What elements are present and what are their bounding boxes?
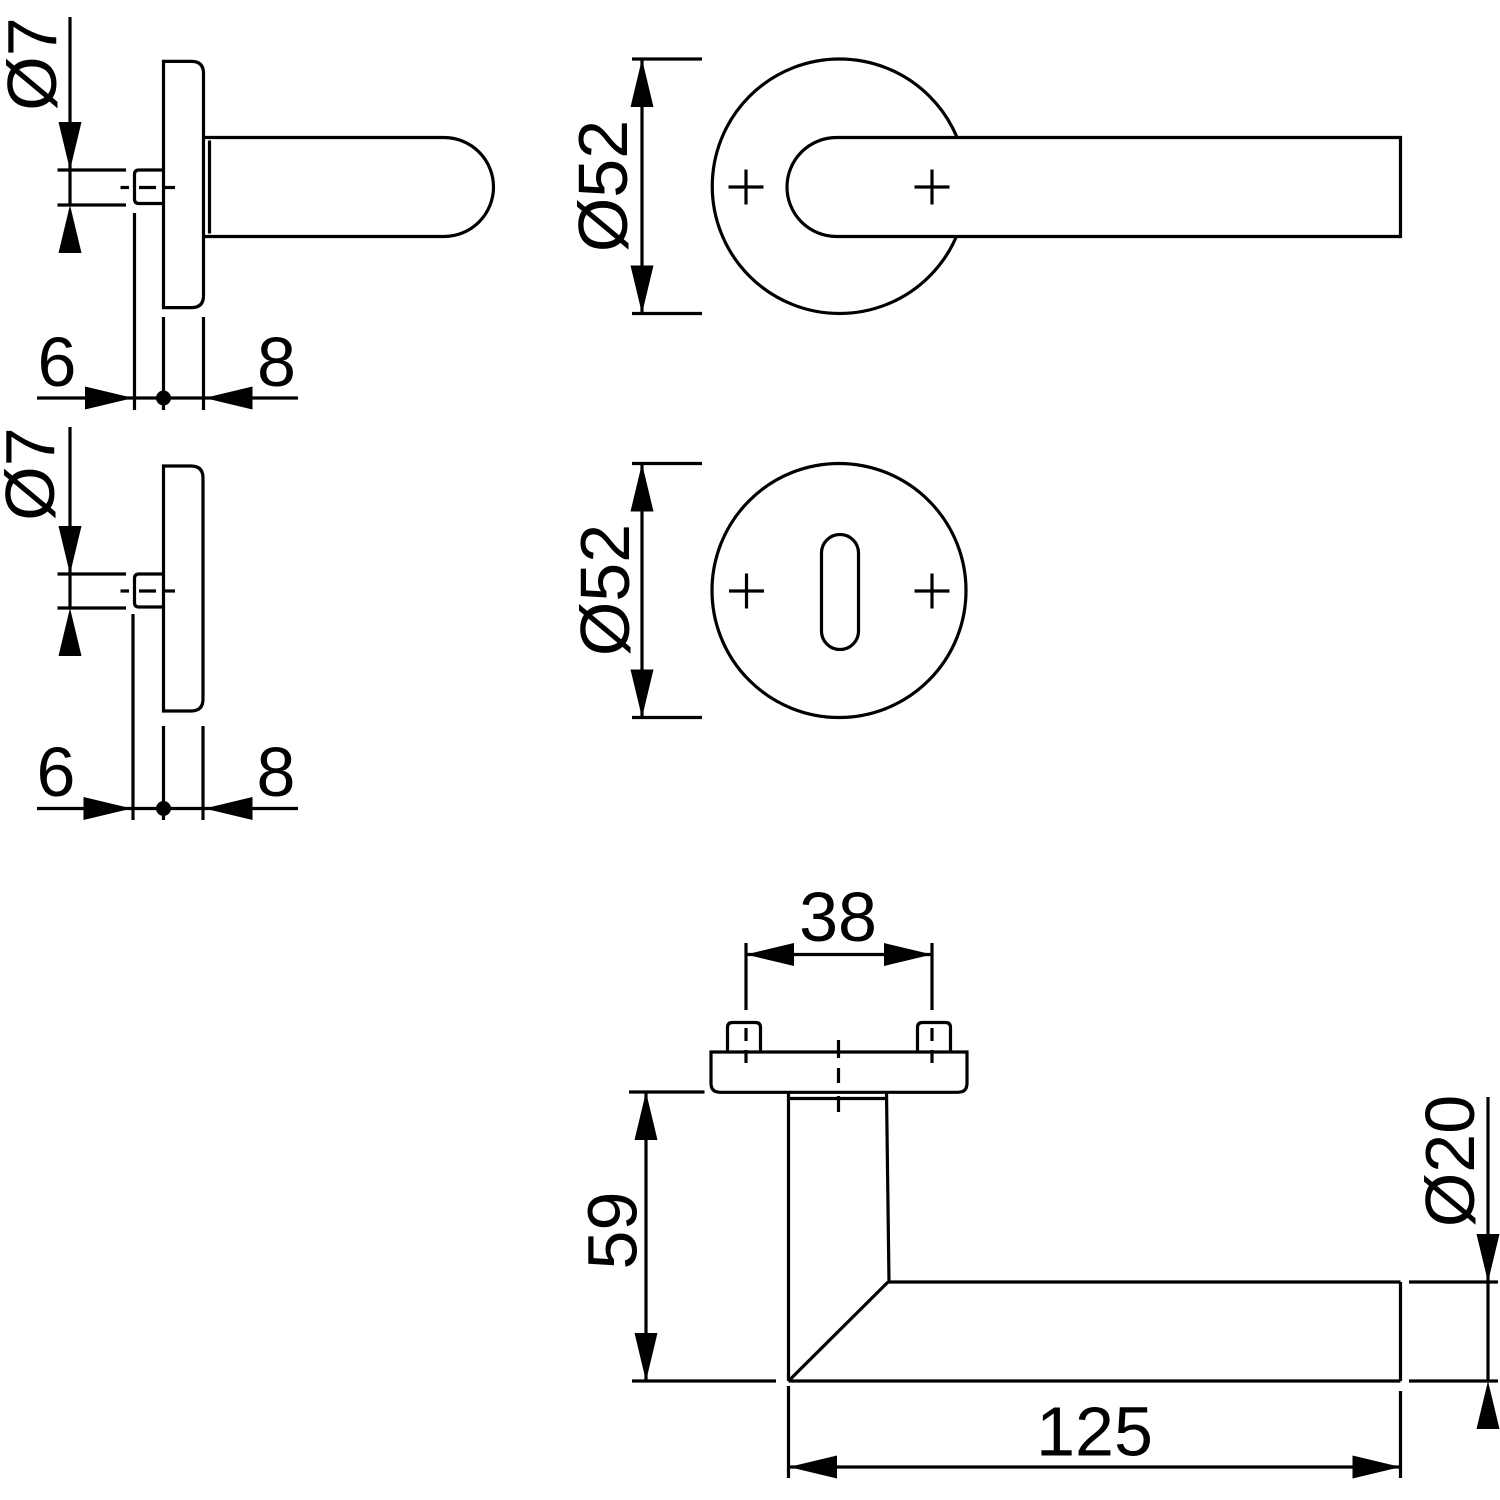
rosette circle Ø52 (712, 59, 967, 314)
dim Ø20 arrow down (1477, 1234, 1500, 1282)
dim Ø7 tick bottom (mid) (58, 606, 127, 609)
dim 59 line (644, 1092, 647, 1381)
dim Ø52 tick top (632, 57, 702, 60)
key spindle stub (135, 574, 164, 607)
dim 59 arrow up (635, 1092, 658, 1140)
dim 38 arrow right (884, 943, 932, 966)
key screw cross right (915, 574, 950, 609)
svg-text:Ø52: Ø52 (566, 524, 644, 656)
extension line rosette back (162, 317, 165, 410)
extension line rosette front (mid) (201, 726, 204, 820)
dim Ø7 arrow up (59, 205, 82, 253)
grip end edge (1399, 1282, 1402, 1381)
dim junction dot (mid) (156, 801, 171, 816)
dim 8 arrow (205, 387, 253, 410)
dim Ø7 tick top (mid) (58, 572, 127, 575)
dim Ø7 arrow up (mid) (59, 608, 82, 656)
dim 125 line (789, 1465, 1401, 1468)
screw cross left (729, 170, 764, 205)
dim Ø52 tick bottom (mid) (632, 716, 702, 719)
extension line 6 (133, 213, 136, 410)
screw cross right (915, 170, 950, 205)
svg-text:Ø20: Ø20 (1411, 1095, 1489, 1227)
neck left edge (787, 1092, 790, 1381)
neck right edge (887, 1092, 890, 1282)
dim Ø7 arrow down (mid) (59, 526, 82, 574)
dim 38 extension right solid (930, 943, 933, 1010)
svg-text:Ø7: Ø7 (0, 427, 69, 520)
svg-text:Ø7: Ø7 (0, 17, 71, 110)
dim junction dot (156, 391, 171, 406)
dim 6/8 line (37, 396, 298, 399)
dim Ø52 tick top (mid) (632, 462, 702, 465)
spindle dashed centerline (121, 186, 176, 189)
dim Ø52 arrow up (631, 59, 654, 107)
dim Ø20 arrow up (1477, 1381, 1500, 1429)
dim Ø7 arrow down (59, 122, 82, 170)
miter line (789, 1282, 889, 1381)
svg-text:8: 8 (257, 733, 296, 811)
dim 38 extension left dashed (744, 1028, 747, 1063)
key rosette plate (side view) (164, 466, 204, 711)
dim 59 extension top (629, 1090, 705, 1093)
dim 38 arrow left (746, 943, 794, 966)
dim Ø52 arrow down (631, 266, 654, 314)
lever handle front view (787, 138, 1400, 237)
dim 38 extension left solid (744, 943, 747, 1010)
key screw cross left (729, 574, 764, 609)
dim Ø52 arrow up (mid) (631, 464, 654, 512)
rosette plate (side view, handle) (164, 61, 204, 307)
svg-text:Ø52: Ø52 (564, 120, 642, 252)
svg-text:6: 6 (37, 733, 76, 811)
dim Ø20 tick bottom (1409, 1379, 1498, 1382)
dim 6/8 line (mid) (37, 807, 298, 810)
spindle stub (135, 170, 164, 204)
dim Ø20 line (1486, 1097, 1489, 1381)
key spindle dashed centerline (121, 589, 176, 592)
dim 125 arrow right (1353, 1456, 1401, 1479)
screw boss right (918, 1023, 951, 1053)
screw boss left (728, 1023, 761, 1053)
dim Ø52 tick bottom (632, 312, 702, 315)
dim Ø7 tick top (58, 168, 127, 171)
extension line rosette back (mid) (162, 726, 165, 820)
dim Ø52 arrow down (mid) (631, 670, 654, 718)
dim 8 arrow (mid) (205, 797, 253, 820)
keyhole slot (822, 535, 859, 650)
dim Ø52 line (mid view) (640, 464, 643, 718)
dim Ø7 line (mid view) (68, 427, 71, 608)
extension line 6 (mid) (131, 614, 134, 820)
grip bottom edge (789, 1379, 1401, 1382)
neck base edge (208, 141, 211, 234)
key rosette circle Ø52 (712, 464, 966, 718)
svg-text:38: 38 (799, 878, 877, 956)
neck top edge (789, 1097, 888, 1100)
dim Ø7 tick bottom (58, 203, 127, 206)
flange dashed centerline (837, 1040, 840, 1112)
dim 125 extension left (787, 1386, 790, 1478)
extension line rosette front (202, 317, 205, 410)
dim Ø20 tick top (1409, 1280, 1498, 1283)
dim 6 arrow (85, 387, 133, 410)
svg-text:59: 59 (574, 1192, 652, 1270)
dim Ø7 line (top view) (68, 17, 71, 205)
mounting flange (711, 1052, 967, 1092)
svg-text:6: 6 (38, 323, 77, 401)
dim Ø52 line (top view) (640, 59, 643, 314)
dim 6 arrow (mid) (84, 797, 132, 820)
svg-text:125: 125 (1036, 1393, 1153, 1471)
dim 38 extension right dashed (930, 1028, 933, 1063)
svg-text:8: 8 (257, 323, 296, 401)
dim 59 extension bottom (632, 1379, 776, 1382)
dim 38 line (746, 953, 932, 956)
dim 125 arrow left (789, 1456, 837, 1479)
grip top edge (888, 1280, 1401, 1283)
dim 59 arrow down (635, 1333, 658, 1381)
dim 125 extension right (1399, 1391, 1402, 1478)
handle neck capsule (205, 138, 494, 237)
